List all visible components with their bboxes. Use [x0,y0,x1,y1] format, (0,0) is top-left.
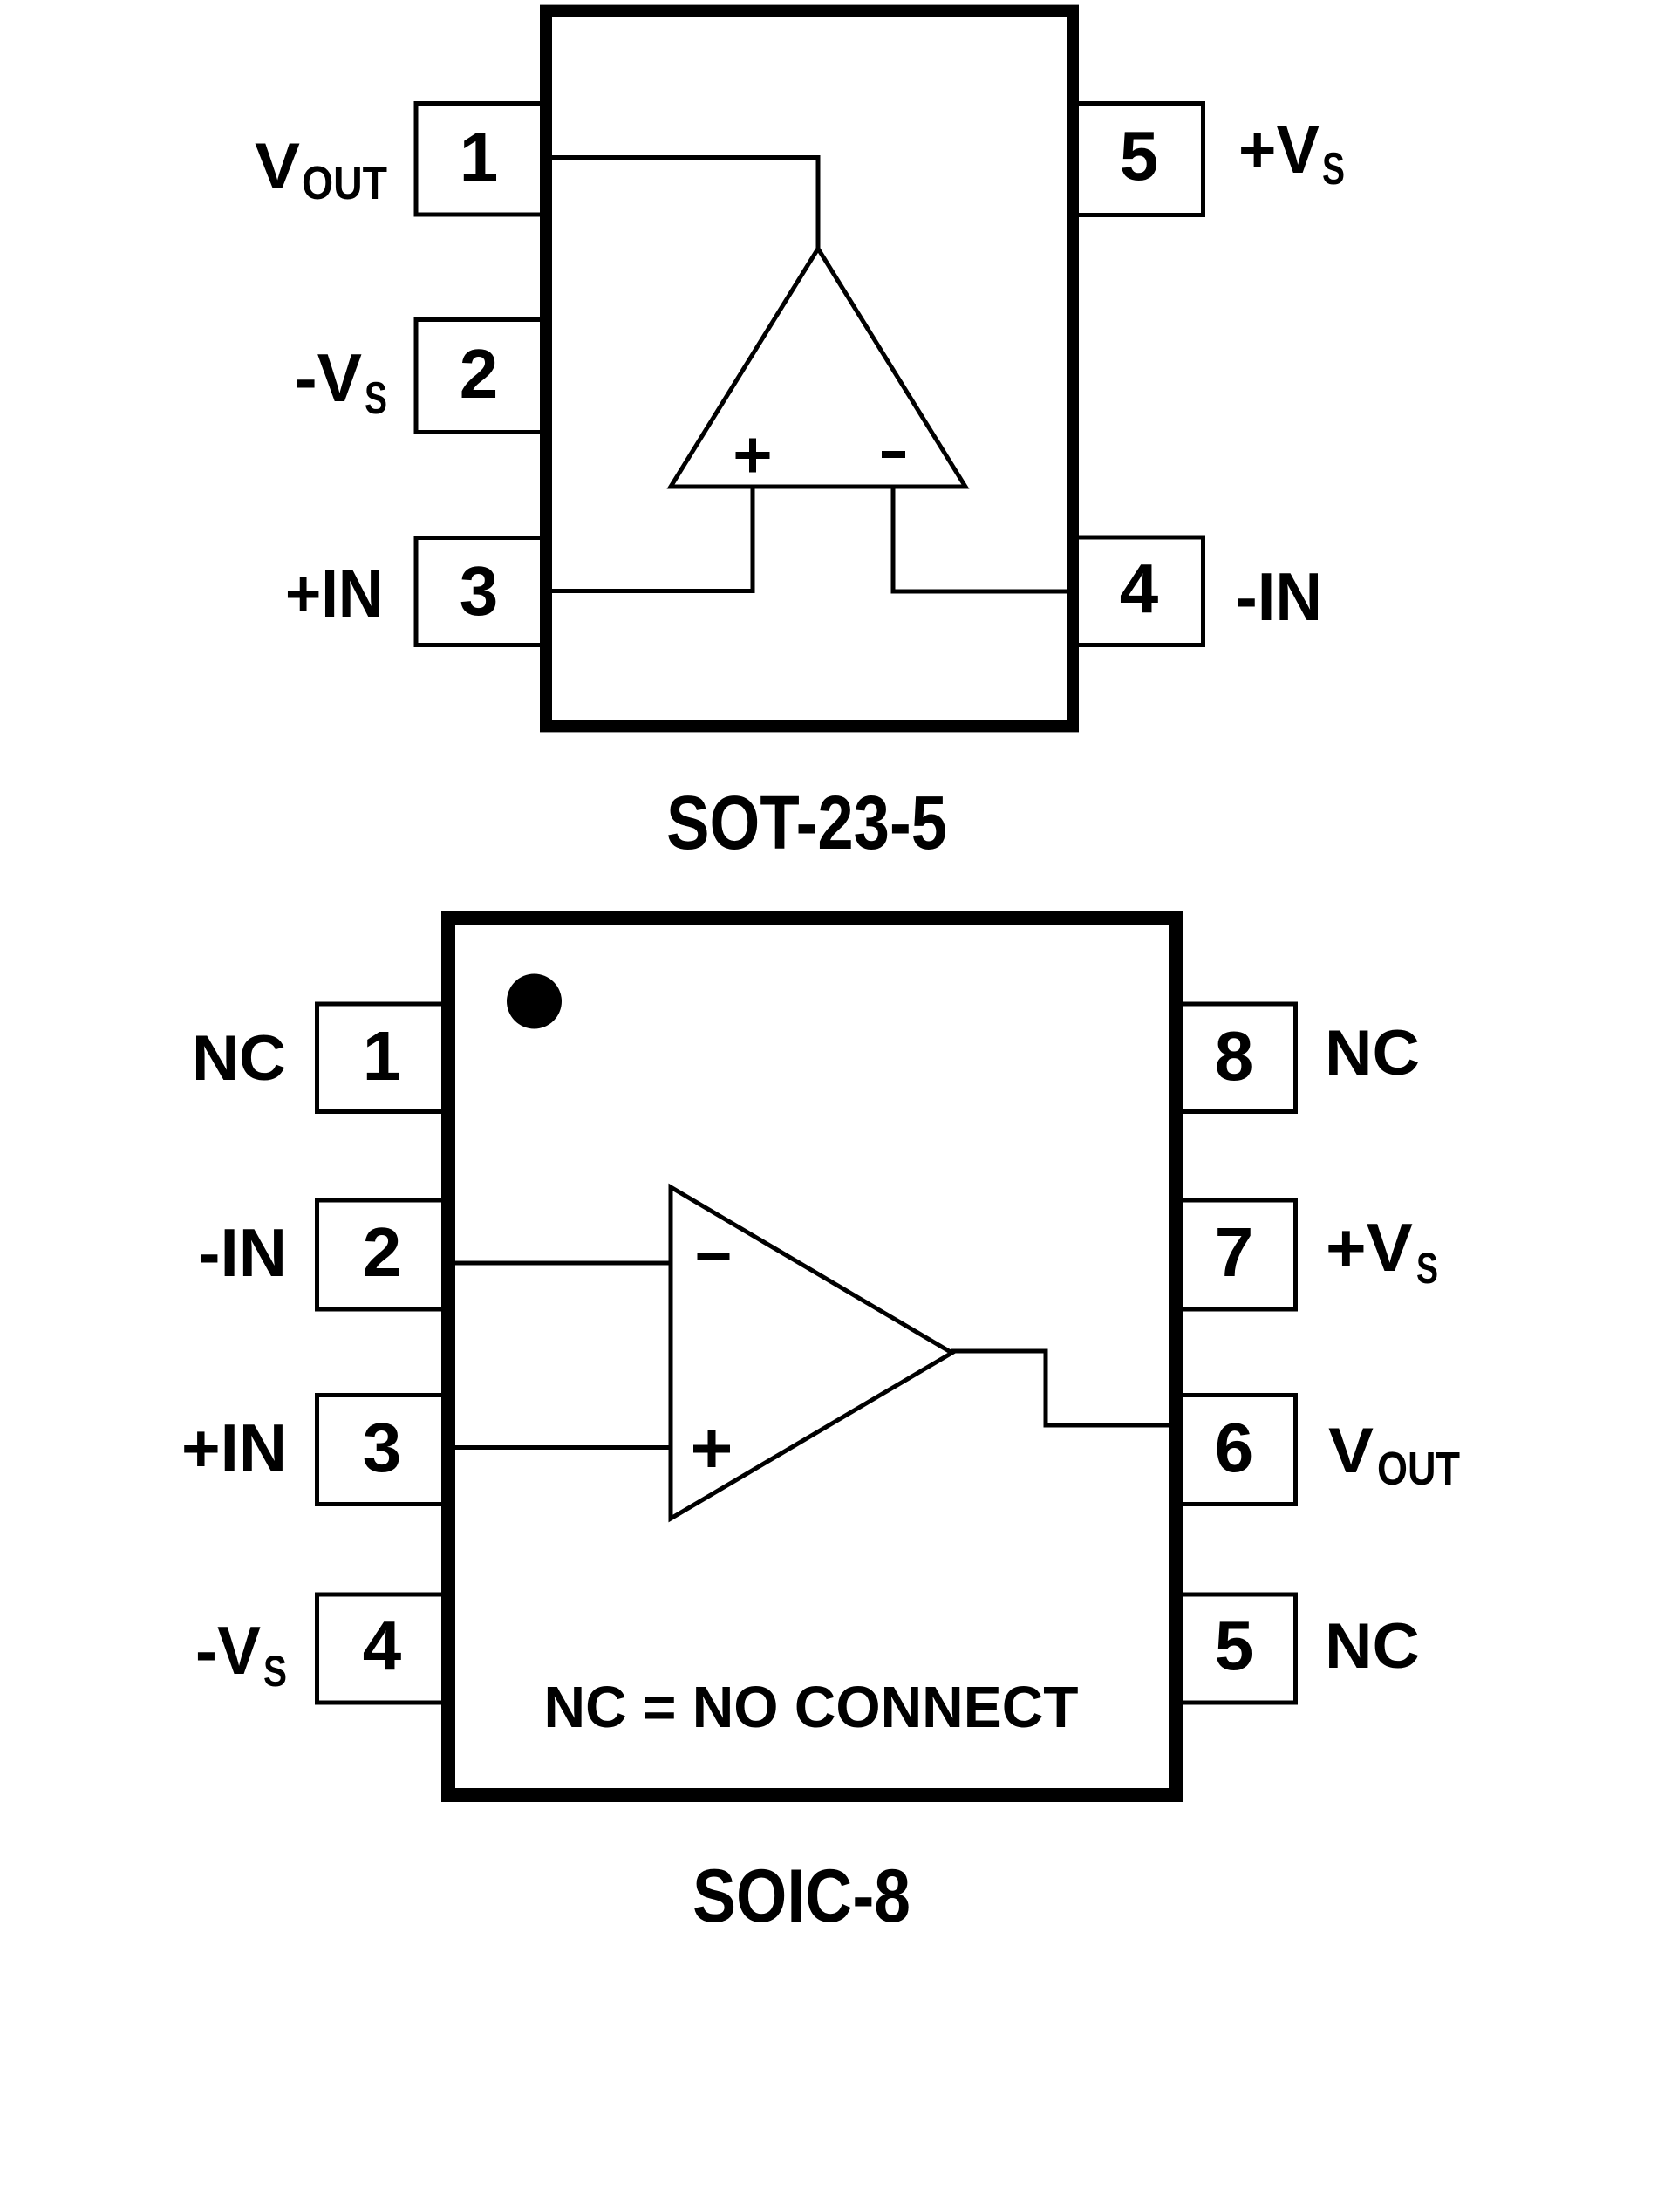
wire op-amp output to pin6 (SOIC) [951,1351,1178,1425]
pin 1 box (SOIC-8) [317,1004,453,1112]
svg-text:4: 4 [363,1607,402,1684]
wire pin4 to minus input (SOT) [893,485,1073,594]
minus sign inside op-amp (SOT) [882,451,905,458]
svg-text:SOIC-8: SOIC-8 [692,1854,911,1938]
plus sign inside op-amp (SOT) [736,439,770,473]
svg-text:S: S [1322,144,1345,195]
pin 2 box (SOT-23-5) [416,320,550,433]
minus sign inside op-amp (SOIC) [698,1253,730,1260]
pin 5 box (SOT-23-5) [1069,104,1204,215]
svg-text:-V: -V [295,339,362,416]
pin 7 box (SOIC-8) [1171,1200,1296,1309]
svg-text:6: 6 [1215,1409,1254,1486]
svg-text:-IN: -IN [198,1214,287,1291]
svg-text:3: 3 [363,1409,402,1486]
pin 5 box (SOIC-8) [1171,1594,1296,1703]
svg-text:2: 2 [460,335,499,413]
svg-text:4: 4 [1120,550,1159,627]
pin 6 box (SOIC-8) [1171,1396,1296,1505]
svg-text:+V: +V [1326,1209,1413,1286]
svg-text:S: S [365,373,387,424]
pin 2 box (SOIC-8) [317,1200,453,1309]
label +VS (pin 5) [1238,111,1345,195]
svg-text:-IN: -IN [1236,558,1322,635]
wire pin2 to minus input (SOIC) [450,1261,671,1266]
svg-text:OUT: OUT [302,157,387,209]
pin 1 orientation dot [507,974,562,1029]
svg-text:2: 2 [363,1213,402,1291]
svg-text:S: S [263,1647,287,1696]
package body U2 SOIC-8 [448,918,1176,1795]
wire vertical to apex (SOT) [816,155,821,250]
svg-text:NC: NC [1325,1018,1420,1089]
svg-text:OUT: OUT [1377,1443,1460,1495]
wire pin1 to op-amp output (SOT) [548,155,818,160]
svg-text:S: S [1416,1244,1438,1293]
pin 3 box (SOIC-8) [317,1396,453,1505]
pin 1 box (SOT-23-5) [416,104,550,215]
svg-text:5: 5 [1120,117,1159,195]
pin 4 box (SOIC-8) [317,1594,453,1703]
package body U1 SOT-23-5 [546,11,1073,727]
svg-text:3: 3 [460,552,499,630]
svg-text:7: 7 [1215,1213,1254,1291]
wire pin3 to plus input (SOT) [548,485,753,593]
label -VS (pin 2) [295,339,387,424]
wire pin3 to plus input (SOIC) [450,1445,671,1450]
svg-text:+V: +V [1238,111,1320,188]
svg-text:V: V [1328,1416,1374,1486]
label VOUT (pin 1) [255,131,387,209]
svg-text:NC = NO CONNECT: NC = NO CONNECT [544,1675,1079,1740]
svg-text:1: 1 [460,119,499,196]
svg-text:+IN: +IN [181,1410,287,1486]
op-amp A2 triangle (SOIC) [671,1187,952,1519]
plus sign inside op-amp (SOIC) [693,1430,730,1467]
pin 4 box (SOT-23-5) [1069,537,1204,645]
svg-text:5: 5 [1215,1607,1254,1684]
op-amp A1 triangle (SOT) [671,249,965,487]
svg-text:8: 8 [1215,1017,1254,1095]
pin 8 box (SOIC-8) [1171,1004,1296,1112]
pin 3 box (SOT-23-5) [416,538,550,645]
svg-text:V: V [255,131,300,201]
label +VS (pin 7) [1326,1209,1438,1293]
svg-text:SOT-23-5: SOT-23-5 [666,781,947,865]
svg-text:+IN: +IN [285,555,383,632]
svg-text:-V: -V [195,1612,261,1689]
svg-text:NC: NC [1325,1611,1420,1682]
svg-text:1: 1 [363,1017,402,1095]
label -VS (pin 4) [195,1612,287,1696]
svg-text:NC: NC [192,1023,286,1094]
label VOUT (pin 6) [1328,1416,1460,1495]
